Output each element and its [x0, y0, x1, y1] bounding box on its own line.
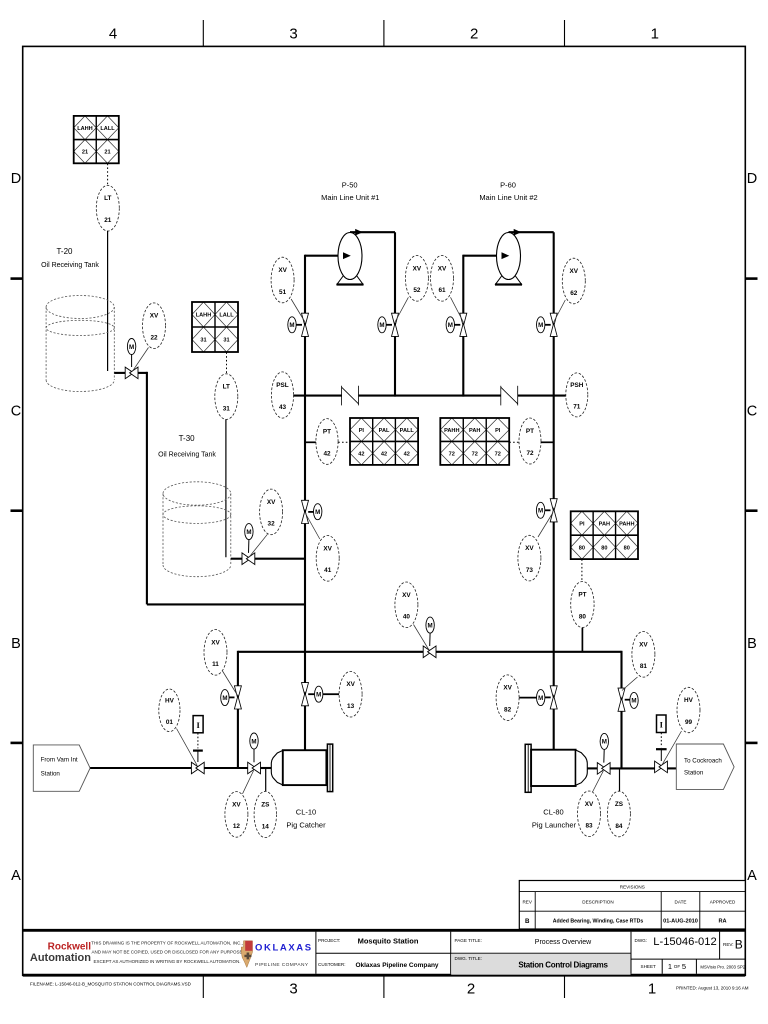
XV13 motor bubble M [315, 686, 323, 702]
svg-text:2: 2 [467, 981, 475, 998]
svg-text:M: M [448, 322, 453, 329]
XV51 leader line [291, 299, 305, 322]
svg-text:THIS DRAWING IS THE PROPERTY O: THIS DRAWING IS THE PROPERTY OF ROCKWELL… [91, 940, 243, 945]
svg-text:Station: Station [41, 770, 61, 777]
svg-text:XV: XV [278, 267, 287, 274]
XV22 motor bubble M [127, 339, 135, 355]
svg-text:M: M [428, 622, 433, 629]
instrument XV 13 [339, 671, 362, 717]
pump1 discharge arrow [355, 229, 363, 236]
svg-text:XV: XV [150, 313, 159, 320]
svg-text:DWG:: DWG: [635, 938, 648, 943]
XV62 leader line [554, 300, 566, 322]
pump2 suction arrow [502, 252, 510, 259]
wire XV12 to CL-10 nose [260, 767, 271, 769]
svg-text:M: M [631, 698, 636, 705]
valve XV81 [618, 688, 625, 701]
svg-text:M: M [316, 692, 321, 699]
wire T-20 outlet to valve XV22 [114, 372, 125, 374]
svg-text:C: C [11, 404, 21, 420]
XV32 actuator stem [248, 539, 250, 553]
svg-text:APPROVED: APPROVED [710, 900, 736, 905]
interlock box I for HV01 [193, 716, 203, 733]
vessel CL-10 pig catcher nose cone [271, 750, 283, 785]
svg-text:PT: PT [578, 592, 586, 599]
svg-text:21: 21 [104, 150, 110, 156]
svg-text:72: 72 [472, 451, 478, 457]
wire pump1 discharge to header [394, 337, 396, 397]
svg-text:81: 81 [640, 663, 648, 670]
wire pump2 column XV73 to manifold [553, 522, 555, 686]
svg-text:01: 01 [166, 719, 174, 726]
XV12 leader line [243, 771, 254, 794]
svg-text:T-30: T-30 [179, 434, 196, 443]
wire riser middle (header to XV41) [304, 337, 306, 501]
alarm table PI/PAH/PAHH 80 [571, 511, 593, 535]
svg-text:OKLAXAS: OKLAXAS [255, 943, 313, 954]
svg-text:A: A [747, 868, 757, 884]
instrument XV 82 [496, 675, 519, 721]
XV83 actuator stem [603, 750, 605, 763]
svg-text:31: 31 [200, 338, 206, 344]
svg-text:LT: LT [223, 384, 230, 391]
wire XV32 valve to main riser [255, 558, 305, 560]
svg-text:M: M [538, 695, 543, 702]
XV11 leader line [223, 671, 238, 695]
alarm table LAHH/LALL 21 [74, 116, 97, 140]
wire riser pump1 suction column upper [304, 255, 306, 314]
svg-text:M: M [289, 322, 294, 329]
XV52 leader line [395, 297, 408, 322]
XV12 motor bubble M [250, 733, 258, 749]
svg-text:5: 5 [682, 962, 686, 971]
title block top border [23, 929, 746, 932]
XV73 motor bubble M [536, 502, 544, 518]
XV81 leader line [622, 677, 638, 691]
svg-text:AND MAY NOT BE COPIED, USED OR: AND MAY NOT BE COPIED, USED OR DISCLOSED… [92, 950, 243, 955]
svg-text:EXCEPT AS AUTHORIZED IN WRITIN: EXCEPT AS AUTHORIZED IN WRITING BY ROCKW… [93, 959, 240, 964]
svg-text:Station: Station [684, 769, 704, 776]
instrument XV 73 [518, 535, 541, 581]
XV11 motor bubble M [221, 690, 229, 706]
svg-text:XV: XV [211, 639, 220, 646]
svg-text:1: 1 [648, 981, 656, 998]
instrument HV 99 [677, 687, 700, 732]
XV62 motor bubble M [537, 317, 545, 333]
svg-text:M: M [246, 529, 251, 536]
svg-text:80: 80 [624, 545, 630, 551]
svg-text:To Cockroach: To Cockroach [684, 757, 722, 764]
svg-text:P-50: P-50 [342, 181, 358, 190]
svg-text:PI: PI [579, 521, 585, 527]
svg-text:P-60: P-60 [500, 181, 516, 190]
XV83 motor bubble M [600, 733, 608, 749]
signal wire (dotted) table 21 to LT 21 [107, 164, 109, 186]
instrument LT 31 [215, 374, 238, 420]
svg-text:42: 42 [358, 451, 364, 457]
Oklaxas logo icon [241, 941, 252, 968]
svg-text:52: 52 [413, 287, 421, 294]
svg-text:82: 82 [504, 707, 512, 714]
XV52 motor bubble M [378, 317, 386, 333]
svg-text:ZS: ZS [261, 802, 270, 809]
wire XV11 to inlet line [237, 709, 239, 768]
svg-text:51: 51 [279, 289, 287, 296]
instrument XV 11 [204, 630, 227, 676]
svg-text:LAHH: LAHH [77, 126, 93, 132]
XV32 motor bubble M [245, 524, 253, 540]
valve XV41 [302, 500, 309, 513]
svg-text:D: D [747, 171, 757, 187]
svg-text:T-20: T-20 [56, 247, 73, 256]
wire pump2 discharge XV62 to XV73 [553, 337, 555, 499]
XV81 motor bubble M [630, 692, 638, 708]
svg-text:LT: LT [104, 195, 111, 202]
XV11 motor link [229, 696, 234, 698]
svg-text:1: 1 [668, 962, 672, 971]
svg-text:XV: XV [232, 801, 241, 808]
svg-text:3: 3 [289, 981, 297, 998]
svg-text:71: 71 [573, 404, 581, 411]
XV40 actuator stem [429, 633, 431, 646]
valve XV52 [392, 313, 399, 326]
alarm table PAHH/PAH/PI 72 [440, 418, 463, 441]
svg-text:PAHH: PAHH [444, 428, 459, 434]
XV13 motor link [308, 693, 314, 695]
svg-text:12: 12 [233, 823, 241, 830]
svg-text:PT: PT [526, 428, 534, 435]
wire HV99 to flag [667, 767, 676, 769]
HV99 hand actuator tee [656, 748, 667, 750]
svg-text:HV: HV [684, 697, 694, 704]
valve XV82 [550, 686, 557, 699]
pump1 suction arrow [343, 252, 351, 259]
svg-text:PSH: PSH [570, 382, 584, 389]
XV82 motor link [545, 696, 551, 698]
HV01 hand actuator tee [193, 749, 203, 751]
XV73 motor link [545, 509, 551, 511]
line break symbol 1 [341, 386, 343, 406]
svg-text:42: 42 [323, 450, 331, 457]
svg-text:Main Line Unit #1: Main Line Unit #1 [321, 193, 379, 202]
XV52 motor link [386, 324, 392, 326]
tank T-20 [46, 296, 114, 319]
svg-text:42: 42 [381, 451, 387, 457]
svg-text:XV: XV [267, 499, 276, 506]
valve XV22 [125, 367, 133, 379]
instrument XV 83 [578, 791, 601, 837]
svg-text:RA: RA [718, 919, 726, 925]
svg-text:61: 61 [438, 287, 446, 294]
svg-text:PAH: PAH [469, 428, 480, 434]
svg-text:Oil Receiving Tank: Oil Receiving Tank [158, 452, 216, 459]
signal wire (dotted) alarm table 72 to PT72 [509, 441, 519, 443]
wire pump2 discharge top [509, 231, 554, 233]
svg-text:Mosquito Station: Mosquito Station [358, 936, 419, 945]
ZS14 stub wire [265, 768, 267, 791]
svg-text:XV: XV [323, 545, 332, 552]
svg-text:CL-10: CL-10 [296, 808, 316, 817]
instrument PT 42 [316, 419, 338, 465]
XV41 leader line [306, 514, 320, 540]
wire manifold right of XV40 [436, 651, 622, 653]
vessel CL-10 flange plates [327, 744, 332, 792]
signal wire (dotted) PT42 to alarm table 42 [338, 441, 350, 443]
wire PT80 to manifold [581, 628, 583, 652]
svg-text:72: 72 [526, 450, 534, 457]
right zone tick marks [745, 277, 757, 280]
XV61 leader line [451, 297, 464, 322]
svg-text:LALL: LALL [100, 126, 115, 132]
svg-text:Oklaxas Pipeline Company: Oklaxas Pipeline Company [355, 962, 438, 969]
svg-text:32: 32 [268, 521, 276, 528]
svg-text:DWG. TITLE:: DWG. TITLE: [455, 956, 482, 961]
svg-text:XV: XV [413, 265, 422, 272]
svg-text:PT: PT [323, 429, 331, 436]
svg-text:31: 31 [223, 338, 229, 344]
tank T-30 [163, 482, 231, 505]
svg-text:DATE: DATE [675, 900, 687, 905]
svg-text:XV: XV [438, 265, 447, 272]
svg-text:1: 1 [651, 26, 659, 43]
svg-text:21: 21 [82, 150, 88, 156]
svg-text:MSVisio Pro. 2003 SP2: MSVisio Pro. 2003 SP2 [700, 965, 745, 970]
valve XV62 [550, 313, 557, 326]
valve XV51 [302, 313, 309, 326]
vessel CL-80 pig launcher nose cone [576, 750, 588, 785]
instrument ZS 84 [607, 791, 630, 837]
alarm table PI/PAL/PALL 42 [350, 418, 373, 441]
svg-text:Oil Receiving Tank: Oil Receiving Tank [41, 262, 99, 269]
svg-text:73: 73 [526, 567, 534, 574]
valve XV73 [550, 499, 557, 512]
valve HV99 [655, 761, 663, 773]
wire PT72 spur [541, 441, 554, 443]
pump2 discharge arrow [514, 229, 522, 236]
instrument XV 61 [431, 255, 454, 301]
instrument PT 72 [519, 418, 541, 464]
wire XV22 valve to corner [138, 372, 148, 374]
svg-text:11: 11 [212, 661, 219, 668]
title block vertical dividers [315, 932, 317, 974]
svg-text:FILENAME: L-15046-012-B_MOS: FILENAME: L-15046-012-B_MOSQUITO STATION… [30, 981, 192, 986]
XV40 motor bubble M [426, 617, 434, 633]
line break symbol 2 [500, 386, 502, 406]
XV61 motor bubble M [446, 317, 454, 333]
XV61 motor link [455, 324, 461, 326]
svg-text:Pig Catcher: Pig Catcher [286, 821, 326, 830]
svg-text:M: M [538, 508, 543, 515]
svg-text:HV: HV [165, 697, 175, 704]
instrument PSL 43 [271, 372, 293, 418]
svg-text:A: A [11, 868, 21, 884]
pump P-60 casing circle [497, 233, 521, 280]
svg-text:M: M [538, 322, 543, 329]
svg-text:13: 13 [347, 703, 355, 710]
XV51 motor bubble M [288, 317, 296, 333]
svg-text:PAHH: PAHH [619, 521, 634, 527]
instrument XV 41 [316, 536, 339, 582]
wire pump1 discharge top [350, 231, 395, 233]
instrument XV 81 [632, 632, 655, 678]
svg-text:84: 84 [615, 823, 623, 830]
svg-text:PI: PI [359, 428, 365, 434]
svg-text:42: 42 [404, 451, 410, 457]
svg-text:XV: XV [570, 268, 579, 275]
svg-text:Main Line Unit #2: Main Line Unit #2 [479, 193, 537, 202]
flag From Vam Int Station [33, 745, 90, 791]
svg-text:XV: XV [346, 681, 355, 688]
svg-text:62: 62 [570, 290, 578, 297]
XV22 actuator stem [131, 355, 133, 367]
svg-text:01-AUG-2010: 01-AUG-2010 [663, 919, 698, 925]
svg-text:LALL: LALL [219, 313, 234, 319]
wire pump2 suction column [462, 255, 464, 314]
wire header segment 3 [518, 395, 566, 397]
instrument PSH 71 [566, 373, 588, 417]
signal wire (dotted) I-box to HV99 [660, 733, 662, 748]
XV41 motor link [308, 511, 313, 513]
svg-text:XV: XV [402, 592, 411, 599]
instrument HV 01 [159, 689, 180, 732]
svg-text:31: 31 [223, 405, 231, 412]
instrument XV 40 [395, 582, 418, 628]
wire PT42 spur [305, 441, 316, 443]
svg-text:M: M [251, 738, 256, 745]
svg-text:PAH: PAH [599, 521, 610, 527]
vessel CL-80 pig launcher body [531, 750, 576, 786]
valve XV40 [423, 646, 431, 658]
valve HV01 [191, 762, 199, 774]
svg-text:PAL: PAL [379, 428, 390, 434]
XV32 leader line [249, 534, 267, 557]
svg-text:Automation: Automation [30, 952, 91, 964]
svg-text:B: B [11, 636, 21, 652]
svg-text:C: C [747, 404, 757, 420]
svg-text:PRINTED: August 13, 2010 9:16: PRINTED: August 13, 2010 9:16 AM [676, 985, 749, 990]
svg-text:XV: XV [525, 545, 534, 552]
svg-text:PI: PI [495, 428, 501, 434]
interlock box I for HV99 [657, 715, 667, 733]
XV41 motor bubble M [314, 504, 322, 520]
pump P-60 base [496, 276, 522, 285]
svg-text:DESCRIPTION: DESCRIPTION [582, 900, 613, 905]
svg-text:PROJECT:: PROJECT: [318, 938, 340, 943]
svg-text:21: 21 [104, 217, 112, 224]
svg-text:SHEET: SHEET [641, 964, 657, 969]
wire pump1 discharge drop [394, 232, 396, 313]
svg-text:B: B [735, 938, 743, 952]
svg-text:REVISIONS: REVISIONS [620, 884, 645, 889]
svg-text:XV: XV [639, 641, 648, 648]
XV73 leader line [538, 513, 553, 538]
svg-text:PALL: PALL [400, 428, 415, 434]
wire XV83 to HV99 [610, 767, 655, 769]
wire pump2 discharge drop [553, 232, 555, 313]
LT 21 dip tube wire into T-20 [107, 231, 109, 371]
wire bottom of T-20 leg to main riser [147, 603, 305, 605]
valve XV61 [460, 313, 467, 326]
wire riser XV13 to CL-10 [304, 706, 306, 751]
svg-text:80: 80 [579, 613, 587, 620]
title block row dividers [316, 952, 631, 954]
wire pump2 column below manifold to CL-80 [553, 709, 555, 751]
wire pump1 suction [305, 255, 344, 257]
wire header segment 1 [294, 395, 342, 397]
instrument XV 22 [143, 303, 166, 349]
wire pump2 suction [463, 255, 502, 257]
svg-text:D: D [11, 171, 21, 187]
LT 31 dip tube wire into T-30 [225, 419, 227, 557]
svg-text:Process Overview: Process Overview [535, 939, 592, 946]
wire inlet from flag to HV01 [90, 767, 191, 769]
instrument XV 51 [271, 257, 294, 303]
svg-text:80: 80 [579, 545, 585, 551]
wire HV01 to XV12 [204, 767, 248, 769]
svg-text:72: 72 [495, 451, 501, 457]
XV22 leader line [132, 348, 148, 372]
pump P-50 casing circle [338, 233, 362, 280]
valve XV32 [242, 553, 250, 565]
left zone tick marks [11, 277, 23, 280]
flag To Cockroach Station [676, 744, 734, 789]
top zone tick marks [202, 20, 204, 46]
title block bottom border [23, 974, 746, 977]
wire CL-80 nose to XV83 [587, 767, 597, 769]
wire XV81 to outlet line [620, 711, 622, 768]
XV40 leader line [414, 625, 430, 651]
svg-text:PSL: PSL [276, 382, 289, 389]
svg-text:Rockwell: Rockwell [48, 942, 92, 953]
svg-text:43: 43 [279, 404, 287, 411]
instrument ZS 14 [254, 791, 276, 837]
wire header segment 2 [359, 395, 501, 397]
instrument XV 62 [562, 258, 585, 304]
valve XV13 [302, 683, 309, 696]
wire manifold drop to XV11 [237, 651, 239, 686]
signal wire (dotted) table 80 to PT80 [581, 559, 583, 581]
instrument LT 21 [96, 185, 119, 231]
svg-text:ZS: ZS [615, 801, 624, 808]
svg-text:41: 41 [324, 567, 332, 574]
svg-text:PIPELINE COMPANY: PIPELINE COMPANY [255, 962, 309, 968]
valve XV83 [597, 763, 605, 775]
XV51 motor link [296, 324, 302, 326]
svg-text:B: B [525, 918, 530, 925]
XV81 motor link [625, 699, 630, 701]
svg-text:4: 4 [109, 26, 117, 43]
pump P-50 base [337, 276, 363, 285]
HV01 leader line [177, 729, 198, 766]
svg-text:M: M [222, 695, 227, 702]
svg-text:XV: XV [585, 801, 594, 808]
wire T-30 outlet to valve XV32 [231, 558, 242, 560]
svg-text:M: M [315, 509, 320, 516]
svg-text:72: 72 [449, 451, 455, 457]
svg-text:Added Bearing, Winding, Case: Added Bearing, Winding, Case RTDs [553, 919, 644, 925]
svg-text:CUSTOMER:: CUSTOMER: [318, 962, 345, 967]
instrument XV 52 [405, 255, 428, 301]
bottom zone tick marks [202, 975, 204, 998]
svg-text:2: 2 [470, 26, 478, 43]
XV62 motor link [545, 324, 551, 326]
wire manifold left of XV40 [238, 651, 423, 653]
svg-text:Station Control Diagrams: Station Control Diagrams [518, 960, 608, 969]
svg-text:REV: REV [522, 900, 532, 905]
dwg title grey cell [451, 954, 630, 975]
XV13 signal link to bubble [323, 693, 339, 695]
wire down from T-20 outlet corner [146, 372, 148, 605]
